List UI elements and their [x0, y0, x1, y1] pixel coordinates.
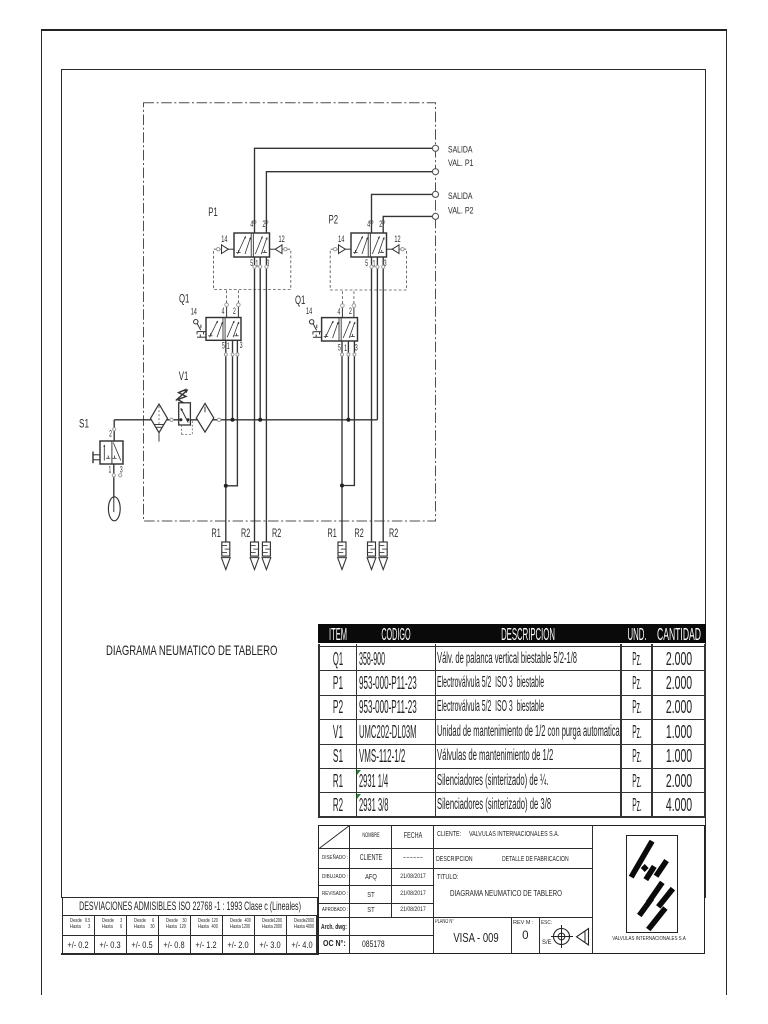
- electrovalve P1 (5/2): [234, 233, 270, 257]
- svg-text:P2: P2: [329, 213, 339, 227]
- pilot 14 of P1: [228, 248, 234, 250]
- title block row DISEÑADO :: [322, 855, 353, 861]
- regulator spring and adjuster: [178, 389, 187, 403]
- pilot routing box of P2 (dashed): [330, 249, 406, 290]
- wire: Q1 right port 1 down to main line: [347, 341, 349, 420]
- svg-text:SALIDA: SALIDA: [448, 145, 473, 155]
- title block diagonal cell: [318, 825, 352, 851]
- wire: P2 port 3 down to silencer R2: [382, 257, 384, 542]
- title block header labels: [350, 831, 392, 833]
- tolerance value cell +/- 0.3: [94, 936, 126, 954]
- silencer R2: [367, 542, 376, 570]
- node: bulkhead outlet: [432, 213, 438, 219]
- tolerance value cell +/- 0.2: [62, 936, 94, 954]
- BOM row P1: [319, 671, 356, 695]
- panel boundary (dash-dot enclosure): [144, 103, 436, 521]
- svg-text:12: 12: [394, 234, 400, 244]
- svg-text:1: 1: [344, 343, 347, 353]
- svg-text:R2: R2: [272, 526, 281, 540]
- wire: P2 port 5 down to silencer R2: [371, 257, 373, 542]
- junction: Q1 right supply: [346, 418, 350, 422]
- tolerance table header: [62, 897, 319, 916]
- svg-text:4: 4: [222, 306, 225, 316]
- node: bulkhead outlet: [432, 169, 438, 175]
- wire: Q1 left port 5 down to silencer R1: [225, 340, 227, 542]
- svg-text:2: 2: [349, 306, 352, 316]
- svg-text:SALIDA: SALIDA: [448, 191, 473, 201]
- svg-text:4: 4: [338, 307, 341, 317]
- drain line of filter: [158, 433, 160, 442]
- tolerance range cell 0.5-3: [62, 916, 94, 937]
- svg-text:3: 3: [355, 342, 358, 352]
- svg-text:14: 14: [191, 307, 197, 317]
- tolerance value cell +/- 0.8: [158, 936, 190, 954]
- svg-text:3: 3: [120, 465, 123, 475]
- wire: S1 port 1 down to gauge: [113, 464, 115, 497]
- regulator V1 body: [179, 403, 191, 425]
- lever actuator of Q1 right: [310, 320, 314, 324]
- svg-text:14: 14: [306, 306, 312, 316]
- descripcion row: [436, 854, 488, 863]
- pilot wire: Q1 right port 4 up to P2 box: [341, 307, 343, 317]
- svg-text:R2: R2: [355, 526, 364, 540]
- svg-text:R2: R2: [241, 526, 250, 540]
- title block row REVISADO :: [322, 891, 353, 897]
- pilot 12 of P1: [270, 248, 276, 250]
- title block frame: [318, 825, 705, 954]
- svg-text:1: 1: [109, 465, 112, 475]
- silencer R2: [250, 542, 259, 570]
- tolerance range cell 6-30: [126, 916, 158, 937]
- auto drain (purga) of V1: [181, 425, 183, 435]
- silencer R1: [221, 542, 230, 570]
- hand-lever valve Q1 (right, 5/2): [322, 318, 358, 341]
- wire: P2 port 4 to SALIDA VAL P2 (upper): [372, 194, 433, 233]
- svg-text:3: 3: [240, 340, 243, 350]
- gauge below S1: [108, 497, 120, 521]
- pilot routing box of P1 (dashed): [214, 249, 291, 289]
- titulo cell: [437, 872, 466, 881]
- title block: [318, 825, 705, 954]
- wire: Q1 right port 5 down to silencer R1: [341, 341, 343, 542]
- svg-text:2: 2: [233, 306, 236, 316]
- junction: Q1 left supply: [231, 418, 235, 422]
- svg-text:2: 2: [109, 429, 112, 439]
- lubricator unit: [196, 403, 214, 432]
- BOM header row: [318, 624, 706, 644]
- svg-text:Q1: Q1: [179, 292, 190, 306]
- hose coupling on main line: [217, 418, 220, 421]
- wire: Q1 right port 3 down joining exhaust: [342, 341, 354, 486]
- rev cell: [513, 920, 533, 926]
- pilot 14 of P2: [345, 248, 351, 250]
- wire: P1 port 3 down to silencer R2: [265, 257, 267, 542]
- regulator arrow: [181, 409, 188, 423]
- silencer R2: [379, 542, 388, 570]
- svg-text:R1: R1: [328, 526, 337, 540]
- svg-text:R2: R2: [389, 526, 398, 540]
- lever actuator of Q1 left: [194, 320, 198, 324]
- wire: Q1 left port 3 down joining exhaust: [226, 340, 238, 486]
- tolerance value cell +/- 1.2: [190, 936, 222, 954]
- BOM row V1: [319, 720, 356, 744]
- svg-text:5: 5: [338, 342, 341, 352]
- company name under logo: [593, 935, 705, 937]
- svg-text:14: 14: [221, 234, 227, 244]
- tolerance range cell 2000-4000: [286, 916, 318, 937]
- tolerance value cell +/- 4.0: [286, 936, 318, 954]
- esc cell: [541, 920, 555, 926]
- projection symbols: [551, 923, 593, 951]
- svg-text:VAL. P1: VAL. P1: [448, 158, 474, 168]
- client row: [437, 831, 469, 838]
- hose coupling on main line: [170, 418, 173, 421]
- svg-text:P1: P1: [208, 205, 218, 219]
- svg-text:12: 12: [279, 234, 285, 244]
- svg-text:V1: V1: [179, 369, 189, 383]
- svg-text:R1: R1: [212, 526, 221, 540]
- title block row OC N°: [323, 939, 349, 948]
- wire: P2 port 2 to SALIDA VAL P2 (lower): [383, 216, 432, 233]
- svg-text:2: 2: [379, 219, 382, 229]
- svg-text:S1: S1: [79, 416, 89, 430]
- caption: DIAGRAMA NEUMATICO DE TABLERO: [106, 643, 354, 658]
- pilot wire: Q1 left port 2 up to P1 box: [237, 307, 239, 318]
- title block row APROBADO :: [322, 907, 356, 913]
- tolerance range cell 120-400: [190, 916, 222, 937]
- tolerance range cell 400-1200: [222, 916, 254, 937]
- junction: Q1 right exhaust tie: [340, 484, 344, 488]
- pilot wire: Q1 left port 4 up to P1 box: [226, 307, 228, 318]
- wire: P1 port 1 down to main line: [259, 257, 261, 420]
- BOM grid: [318, 644, 320, 818]
- electrovalve P2 (5/2): [351, 233, 387, 257]
- svg-text:Q1: Q1: [295, 293, 306, 307]
- company logo box: [626, 835, 678, 933]
- node: bulkhead outlet: [432, 191, 438, 197]
- title block row DIBUJADO :: [322, 874, 352, 880]
- filter/water-separator unit: [151, 404, 168, 433]
- tolerance range cell 3-6: [94, 916, 126, 937]
- company logo mark: [626, 835, 678, 933]
- svg-text:5: 5: [222, 340, 225, 350]
- wire: P2 port 1 down to main line: [376, 257, 378, 420]
- svg-text:VAL. P2: VAL. P2: [448, 205, 474, 215]
- svg-text:4: 4: [367, 219, 370, 229]
- wire: S1 port 2 to main line: [113, 420, 115, 441]
- pilot wire: Q1 right port 2 up to P2 box: [353, 307, 355, 317]
- silencer R1: [338, 542, 347, 570]
- tolerance range cell 30-120: [158, 916, 190, 937]
- wire: main supply line: [114, 419, 377, 421]
- BOM table: [319, 623, 705, 625]
- title block grid: [349, 825, 350, 954]
- tolerance value cell +/- 3.0: [254, 936, 286, 954]
- inner drawing frame: [61, 69, 706, 898]
- tolerance range cell 1200-2000: [254, 916, 286, 937]
- BOM row R1: [319, 769, 356, 793]
- wire: P1 port 2 to SALIDA VAL P1 (lower): [266, 172, 432, 233]
- pilot 12 of P2: [387, 248, 393, 250]
- svg-text:5: 5: [365, 258, 368, 268]
- hand-lever valve Q1 (left, 5/2): [206, 318, 241, 341]
- tolerance table DESVIACIONES ADMISIBLES: [62, 896, 319, 898]
- pushbutton actuator of S1: [92, 452, 94, 464]
- wire: Q1 left port 1 down to main line: [232, 340, 234, 420]
- svg-text:14: 14: [338, 234, 344, 244]
- junction: Q1 left exhaust tie: [224, 484, 228, 488]
- silencer R2: [262, 542, 271, 570]
- svg-text:1: 1: [227, 341, 230, 351]
- title block row Arch. dwg: [321, 922, 358, 931]
- tolerance value cell +/- 0.5: [126, 936, 158, 954]
- junction: P1 supply: [258, 418, 262, 422]
- valve S1 (3/2 manual valve): [100, 441, 123, 464]
- BOM row P2: [319, 695, 356, 719]
- node: bulkhead outlet: [432, 145, 438, 151]
- BOM row R2: [319, 793, 356, 817]
- tolerance value cell +/- 2.0: [222, 936, 254, 954]
- BOM row S1: [319, 744, 356, 768]
- svg-text:4: 4: [250, 219, 253, 229]
- wire: P1 port 5 down to silencer R2: [254, 257, 256, 542]
- wire: P1 port 4 to SALIDA VAL P1 (upper): [255, 148, 433, 233]
- plano cell: [435, 919, 464, 925]
- BOM row Q1: [319, 647, 356, 671]
